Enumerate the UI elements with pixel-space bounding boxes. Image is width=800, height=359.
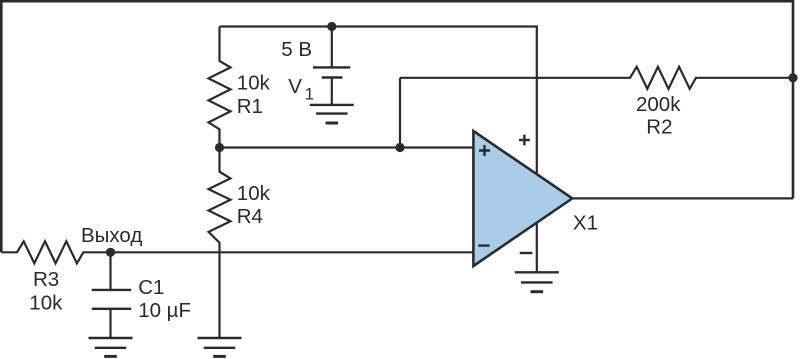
svg-text:R3: R3 (33, 268, 59, 291)
svg-text:R4: R4 (237, 205, 263, 228)
svg-text:200k: 200k (636, 93, 681, 116)
svg-text:R1: R1 (237, 95, 263, 118)
svg-text:10 µF: 10 µF (138, 299, 191, 322)
svg-text:1: 1 (305, 85, 314, 104)
svg-text:10k: 10k (237, 182, 271, 205)
svg-text:5 В: 5 В (281, 38, 312, 61)
svg-text:X1: X1 (573, 212, 598, 235)
svg-text:R2: R2 (646, 116, 672, 139)
svg-text:10k: 10k (237, 71, 271, 94)
svg-text:V: V (288, 75, 302, 98)
svg-text:Выход: Выход (81, 224, 142, 247)
svg-text:C1: C1 (138, 276, 164, 299)
svg-text:10k: 10k (29, 292, 63, 315)
